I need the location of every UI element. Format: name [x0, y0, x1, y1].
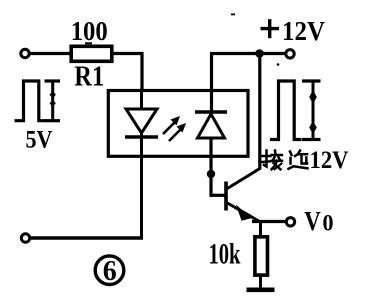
svg-text:R1: R1 — [74, 62, 104, 93]
+12V terminal — [286, 50, 294, 58]
amplitude marker right — [302, 81, 321, 140]
svg-text:10k: 10k — [209, 238, 241, 271]
speck — [231, 14, 235, 16]
svg-text:0: 0 — [323, 211, 334, 236]
emitter wire to V0 — [252, 220, 286, 223]
input waveform 5V — [15, 81, 46, 121]
light arrow 1 — [163, 116, 180, 134]
resistor R1 — [71, 46, 112, 61]
char 近 — [289, 151, 308, 169]
photodiode anode wire — [209, 138, 212, 197]
resistor 10k — [255, 237, 268, 275]
speck — [85, 42, 92, 44]
amplitude marker left — [45, 81, 61, 121]
light arrow 2 — [169, 123, 186, 141]
char 接 — [263, 151, 283, 170]
label +12V plus sign — [261, 19, 280, 38]
wire input to R1 — [30, 52, 71, 55]
wire to 10k — [259, 222, 262, 237]
junction dot — [207, 170, 215, 178]
LED anode wire — [140, 90, 143, 110]
figure number 6 — [95, 256, 124, 285]
junction dot on rail — [255, 49, 264, 58]
photodiode D2 — [195, 110, 227, 113]
svg-text:V: V — [304, 206, 321, 236]
photodiode cathode wire — [210, 54, 213, 113]
optocoupler U1 box — [108, 91, 248, 157]
svg-text:6: 6 — [103, 256, 117, 287]
wire R1 to LED — [112, 54, 142, 93]
transistor Q1 — [226, 169, 260, 222]
label 接近12V — [263, 151, 308, 170]
LED cathode wire — [140, 133, 143, 156]
input terminal top-left — [21, 49, 29, 57]
svg-text:5V: 5V — [26, 127, 53, 154]
V0 terminal — [286, 218, 294, 226]
base wire — [210, 194, 226, 197]
speck — [277, 63, 280, 66]
svg-text:12V: 12V — [282, 16, 325, 46]
LED return wire — [140, 156, 143, 240]
bottom wire — [30, 236, 143, 239]
ground — [247, 288, 275, 293]
svg-text:12V: 12V — [310, 147, 349, 174]
wire 10k to ground — [259, 275, 262, 289]
collector wire — [258, 54, 261, 170]
output waveform — [270, 81, 302, 140]
svg-text:100: 100 — [71, 16, 108, 46]
+12V rail — [210, 52, 285, 55]
input terminal bottom-left — [21, 234, 29, 242]
LED D1 — [126, 109, 157, 133]
